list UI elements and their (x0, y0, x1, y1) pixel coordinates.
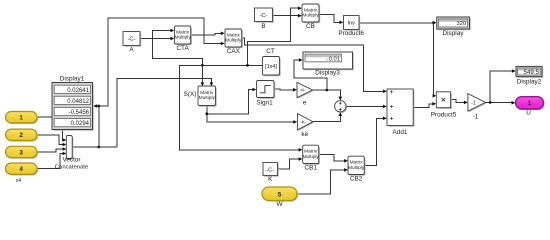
svg-text:W: W (276, 201, 283, 208)
constant K (263, 163, 279, 184)
wire: Product5 output to gain -1 (451, 100, 468, 105)
wire: B output to CB bottom input (273, 14, 302, 18)
svg-text:-C-: -C- (259, 13, 267, 19)
wire: Sign1 output to gain e (274, 88, 297, 92)
matrix multiply CB1 (303, 145, 320, 171)
svg-text:-0.5456: -0.5456 (69, 110, 90, 116)
matrix multiply CTA (174, 26, 191, 52)
svg-text:Multiply: Multiply (348, 165, 365, 171)
wire: CB2 output to Add1 bottom input (364, 117, 387, 166)
wire: riser to Product5 top input (433, 23, 437, 98)
node: junction -1 output (489, 101, 492, 104)
svg-text:0.0294: 0.0294 (71, 121, 90, 127)
svg-text:Multiply: Multiply (303, 154, 320, 160)
node: junction CT line / S(X) riser (201, 64, 204, 67)
svg-text:-1: -1 (471, 100, 476, 106)
inport 5 W (262, 187, 298, 208)
svg-text:U: U (526, 109, 531, 116)
svg-text:Matrix: Matrix (304, 149, 318, 155)
svg-text:S(X): S(X) (184, 91, 197, 98)
display Display3 (-0.01) (303, 52, 354, 76)
svg-text:Matrix: Matrix (200, 90, 214, 96)
svg-text:K: K (268, 176, 273, 183)
svg-text:Concatenate: Concatenate (55, 164, 89, 170)
wire: S(X) output splitting to Sign1 and ke (207, 88, 297, 124)
wire: CB1 output to CB2 top input (319, 154, 348, 162)
display Display2 (549.5) (516, 66, 543, 85)
svg-text:549.5: 549.5 (524, 69, 540, 76)
wire: Add1 output to Product5 bottom input (413, 102, 436, 107)
display Display (320) (437, 17, 471, 37)
svg-text:-K-: -K- (300, 119, 307, 125)
svg-text:CB2: CB2 (350, 176, 363, 183)
wire: sum output to Add1 middle input (346, 105, 387, 109)
constant B (255, 8, 274, 30)
gain e (297, 82, 314, 106)
svg-text:ke: ke (301, 131, 308, 138)
svg-text:CB1: CB1 (304, 165, 317, 172)
svg-text:CTA: CTA (176, 45, 189, 52)
svg-text:0.02641: 0.02641 (67, 88, 89, 94)
matrix multiply CAX (225, 29, 243, 55)
wire: gain e output to sum top (312, 90, 342, 101)
wire: inport 4 to concatenate (37, 152, 66, 169)
svg-text:Sign1: Sign1 (256, 99, 273, 106)
wire: CT line riser to CB top input (248, 6, 302, 65)
display Display1 (52, 75, 94, 130)
svg-text:Vector: Vector (62, 157, 81, 164)
wire: CB output to Product6 (319, 15, 343, 25)
svg-text:Matrix: Matrix (176, 30, 190, 36)
wire: Product6 output to Display (359, 21, 436, 25)
node: junction S(X) output (205, 112, 208, 115)
svg-text:e: e (303, 99, 307, 106)
svg-text:Matrix: Matrix (304, 8, 318, 14)
svg-text:Multiply: Multiply (302, 13, 319, 19)
svg-text:-0.01: -0.01 (327, 57, 340, 63)
svg-text:Display2: Display2 (517, 79, 542, 86)
wire: e output tap to Display3 (294, 58, 327, 90)
constant A (123, 32, 141, 54)
matrix multiply CB2 (348, 156, 365, 182)
svg-text:Matrix: Matrix (227, 33, 241, 39)
wire: X concat output to riser and S(X) right-top input (72, 78, 213, 147)
math function Product6 (Inv) (338, 16, 364, 38)
wire: gain ke output to sum bottom (313, 112, 342, 122)
svg-text:B: B (261, 23, 265, 30)
block: Vector Concatenate (55, 136, 89, 171)
svg-text:CAX: CAX (227, 48, 241, 55)
constant CT [1x4] (263, 48, 281, 76)
svg-text:0.04812: 0.04812 (67, 99, 89, 105)
svg-text:-C-: -C- (127, 37, 135, 43)
wire: W output to CB2 bottom input (297, 168, 348, 194)
wire: X up-branch to Display1 and top loop to CAX bottom input (93, 18, 225, 147)
gain ke (298, 114, 315, 139)
inport 4 (6, 163, 39, 184)
svg-text:A: A (129, 46, 134, 53)
matrix multiply S(X) (184, 86, 217, 107)
svg-text:Inv: Inv (347, 21, 355, 27)
node: junction CT line / CB riser (246, 64, 249, 67)
wire: inport 2 to concatenate (37, 135, 66, 146)
svg-text:Add1: Add1 (393, 129, 408, 136)
node: junction on X wire (97, 146, 100, 149)
wire: CT feed down to S(X) left-top input (201, 65, 205, 86)
gain -1 (468, 94, 487, 121)
svg-text:x4: x4 (16, 178, 22, 184)
product Product5 (431, 92, 457, 119)
inport 3 (6, 146, 39, 158)
wire: gain -1 output to outport U (485, 101, 515, 105)
wire: K output to CB1 bottom input (278, 157, 303, 169)
wire: CTA output to CAX top input (191, 32, 225, 36)
wire: A output to CTA bottom input (140, 37, 174, 41)
node: junction display wire (432, 21, 435, 24)
svg-text:Display3: Display3 (315, 69, 340, 76)
wire: CT feed to CTA top input (152, 29, 202, 66)
svg-text:Multiply: Multiply (174, 35, 191, 41)
svg-text:Product6: Product6 (338, 30, 364, 37)
add block Add1 (387, 89, 414, 136)
wire: inport 1 to concatenate (37, 117, 66, 142)
svg-text:CT: CT (266, 48, 275, 55)
wire: branch up to Display2 (490, 69, 516, 102)
wire: CAX output to Add1 top input (242, 38, 387, 93)
svg-text:-K-: -K- (300, 88, 307, 94)
svg-text:Matrix: Matrix (350, 160, 364, 166)
svg-text:[1x4]: [1x4] (265, 64, 277, 70)
svg-text:-C-: -C- (266, 167, 274, 173)
svg-text:CB: CB (306, 23, 315, 30)
sum circle (335, 101, 348, 114)
outport U (516, 97, 545, 117)
svg-text:Product5: Product5 (431, 112, 457, 119)
svg-text:Multiply: Multiply (199, 95, 216, 101)
wire: inport 3 to concatenate (37, 147, 66, 152)
svg-text:Display1: Display1 (60, 75, 85, 82)
signum Sign1 (256, 81, 275, 107)
svg-text:Display: Display (443, 30, 465, 37)
node: junction at Display1 branch (97, 105, 100, 108)
svg-text:320: 320 (457, 21, 467, 27)
wire: CT output line to CB1 top input (179, 65, 302, 151)
inport 2 (6, 129, 39, 141)
svg-text:-1: -1 (473, 114, 479, 121)
matrix multiply CB (302, 4, 320, 30)
node: junction e output (325, 89, 328, 92)
svg-text:Multiply: Multiply (225, 38, 242, 44)
inport 1 (6, 112, 39, 125)
